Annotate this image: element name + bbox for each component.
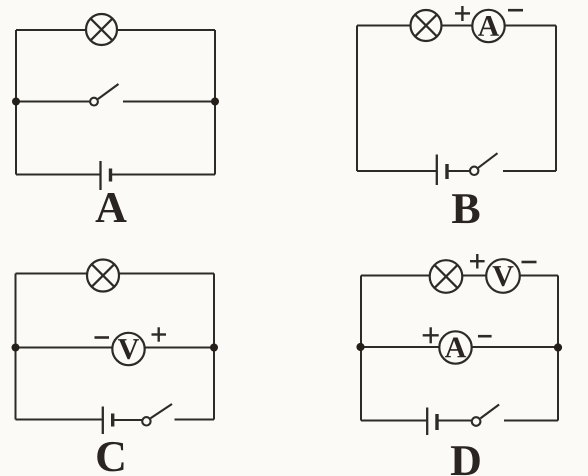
wire bottom-left (D): [361, 420, 427, 422]
wire battery-to-switch (C): [113, 419, 142, 421]
wire middle-right (A): [123, 101, 215, 103]
wire left (A): [15, 30, 17, 175]
wire battery-to-switch (B): [447, 170, 470, 172]
wire left (D): [360, 276, 362, 421]
wire top (A): [16, 29, 215, 31]
wire right (D): [557, 276, 559, 421]
wire right (C): [213, 274, 215, 420]
plus sign (D, voltmeter +): [470, 254, 485, 269]
wire bottom-right (A): [111, 174, 216, 176]
wire top (D): [361, 275, 558, 277]
wire battery-to-switch (D): [437, 420, 471, 422]
voltmeter V1 (D): [486, 259, 520, 293]
wire bottom-right (D): [504, 420, 558, 422]
wire bottom-right (B): [503, 170, 556, 172]
lamp (C): [87, 260, 119, 292]
switch S (D): [472, 405, 499, 426]
battery (D): [427, 408, 437, 436]
wire middle-left (A): [16, 101, 91, 103]
label B: [452, 194, 479, 223]
wire middle (D): [361, 346, 558, 348]
wire bottom-left (B): [357, 170, 436, 172]
ammeter A1 (D): [439, 331, 471, 363]
wire middle (C): [16, 347, 215, 349]
node right (A): [211, 98, 219, 106]
battery (C): [103, 407, 113, 435]
minus sign (B, ammeter -): [508, 9, 523, 12]
label C: [97, 442, 123, 472]
wire right (B): [555, 26, 557, 172]
label D: [451, 446, 480, 475]
battery (B): [437, 155, 447, 186]
plus sign (C, voltmeter +): [152, 327, 167, 341]
wire bottom-left (A): [16, 174, 100, 176]
wire top (C): [16, 273, 215, 275]
switch S (B): [470, 153, 498, 175]
wire left (C): [15, 274, 17, 420]
lamp (D): [430, 260, 463, 293]
plus sign (D, ammeter +): [423, 327, 439, 343]
minus sign (D, voltmeter -): [522, 261, 537, 264]
wire bottom-right (C): [175, 419, 215, 421]
minus sign (D, ammeter -): [478, 335, 492, 338]
label A: [96, 193, 127, 222]
minus sign (C, voltmeter -): [95, 336, 110, 339]
node left (A): [12, 98, 20, 106]
wire left (B): [356, 26, 358, 172]
battery (A): [101, 161, 111, 190]
ammeter A1 (B): [472, 10, 504, 42]
voltmeter V1 (C): [112, 333, 144, 365]
plus sign (B, ammeter +): [455, 6, 470, 21]
switch S (C): [142, 404, 172, 425]
lamp (B): [411, 10, 442, 41]
wire right (A): [214, 30, 216, 175]
node right (D): [554, 343, 562, 351]
node left (C): [12, 344, 20, 352]
node left (D): [356, 343, 364, 351]
wire top (B): [357, 25, 556, 27]
wire bottom-left (C): [16, 419, 103, 421]
lamp (A): [86, 14, 117, 45]
node right (C): [210, 344, 218, 352]
switch S (A): [90, 84, 118, 106]
